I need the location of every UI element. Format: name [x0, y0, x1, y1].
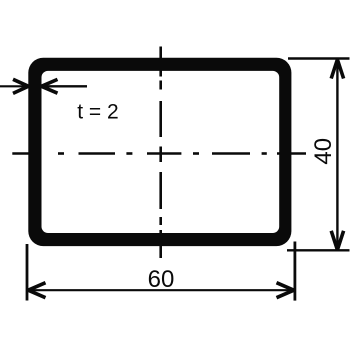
dimension 40: dimension line — [336, 59, 338, 250]
wall thickness leader, inside segment — [41, 85, 87, 87]
tube inner contour (bore, white) — [42, 71, 280, 233]
dimension 40: bottom extension line — [287, 249, 350, 251]
dimension 40: top extension line — [288, 57, 350, 59]
dimension 60: right extension line — [293, 242, 296, 301]
wall thickness leader, outside segment — [0, 85, 28, 87]
dimension 40: lower arrowhead — [331, 231, 343, 250]
tube outer contour (60x40 RHS section, thick black wall) — [28, 58, 291, 246]
svg-text:60: 60 — [148, 266, 175, 293]
wall thickness arrow, outside (points right at outer wall face) — [13, 79, 29, 93]
wall thickness arrow, inside (points left at inner wall face) — [41, 79, 57, 93]
dimension 40: upper arrowhead — [331, 60, 343, 79]
dimension 60: right arrowhead — [277, 283, 294, 298]
svg-text:40: 40 — [310, 138, 337, 165]
horizontal centerline (dash-dot) — [12, 152, 306, 155]
svg-text:t = 2: t = 2 — [77, 101, 118, 124]
vertical centerline (dash-dot) — [159, 47, 162, 259]
dimension 60: left extension line — [26, 244, 29, 301]
dimension 60: dimension line — [28, 289, 294, 291]
dimension 60: left arrowhead — [28, 283, 45, 298]
